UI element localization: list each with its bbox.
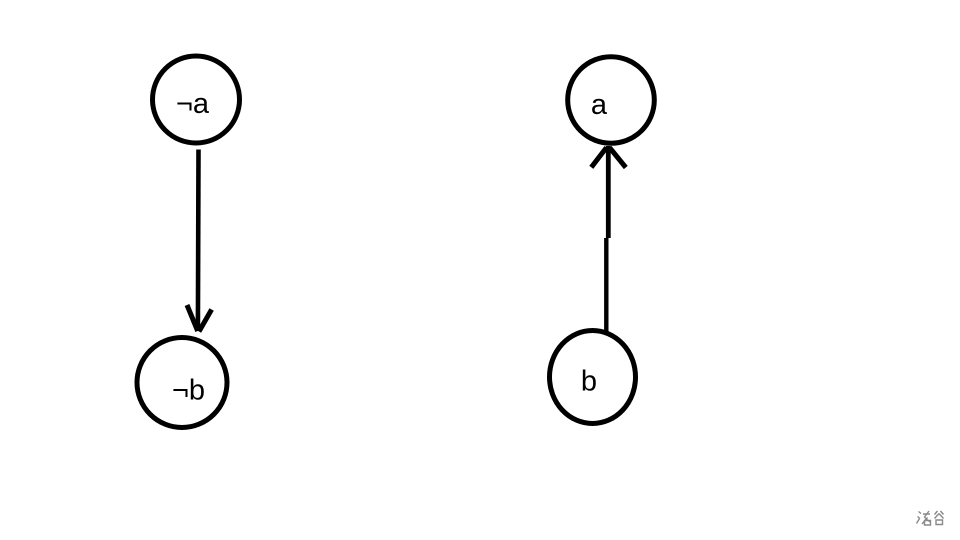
- svg-text:¬b: ¬b: [172, 375, 205, 407]
- svg-text:a: a: [591, 89, 608, 121]
- wire ¬a to ¬b: [196, 150, 201, 331]
- wire b to a (upper segment): [606, 146, 611, 238]
- svg-text:b: b: [581, 366, 597, 398]
- node ¬b: [137, 338, 227, 428]
- node b: [550, 331, 636, 424]
- watermark 洛谷: [917, 511, 944, 525]
- 谷: [935, 511, 944, 525]
- node a: [568, 57, 655, 144]
- wire b to a (lower segment): [604, 238, 608, 333]
- arrowhead into ¬b: [187, 305, 212, 332]
- svg-text:¬a: ¬a: [176, 88, 210, 120]
- node ¬a: [153, 56, 240, 143]
- arrowhead into a: [591, 148, 626, 168]
- 洛 (water radical + 各): [917, 511, 931, 525]
